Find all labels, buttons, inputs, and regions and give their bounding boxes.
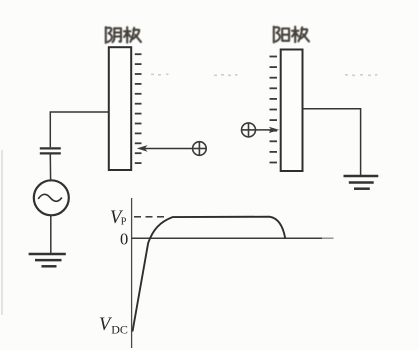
waveform curve [133, 217, 286, 332]
wire cathode to capacitor [50, 112, 109, 147]
anode ticks [270, 57, 278, 163]
dashed Vp level [134, 216, 164, 218]
label 阳极 (anode) [274, 27, 309, 43]
arrow left ion to cathode [142, 148, 193, 150]
wire capacitor to source [49, 155, 51, 181]
anode plate [281, 50, 303, 172]
cathode plate [109, 47, 131, 170]
svg-text:P: P [121, 217, 127, 228]
svg-text:DC: DC [111, 323, 128, 337]
faint dotted scan row [151, 74, 378, 77]
graph vertical axis [131, 198, 133, 348]
positive ion right [242, 123, 256, 137]
arrow right ion to anode [256, 129, 274, 131]
wire anode to ground [303, 109, 361, 175]
ground (left) [29, 254, 66, 266]
faint scan line left edge [1, 150, 3, 315]
wire source to ground [50, 215, 52, 253]
AC source [34, 180, 69, 215]
positive ion left [193, 142, 207, 156]
ground (right) [344, 176, 379, 189]
capacitor C [40, 148, 61, 153]
cathode ticks [135, 54, 142, 163]
graph horizontal 0 axis [132, 237, 322, 239]
label 阴极 (cathode) [106, 27, 141, 43]
svg-text:0: 0 [120, 229, 128, 248]
